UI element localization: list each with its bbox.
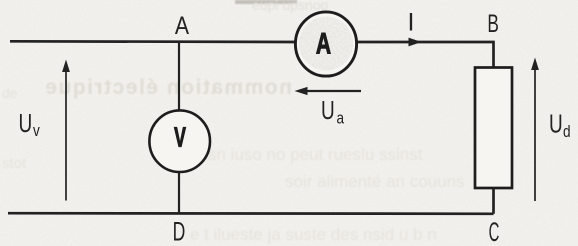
wire voltmeter bottom to node D: [178, 172, 180, 215]
svg-text:C: C: [489, 216, 500, 246]
svg-text:U: U: [321, 95, 335, 125]
svg-text:U: U: [19, 108, 33, 138]
svg-text:d: d: [563, 123, 571, 142]
label Ud: [549, 109, 571, 142]
svg-text:A: A: [175, 11, 190, 39]
svg-text:eupi upsnoo: eupi upsnoo: [252, 0, 329, 13]
voltage arrow Uv: [62, 60, 70, 201]
wire node A junction down to voltmeter: [178, 42, 180, 111]
ammeter A: [295, 12, 356, 76]
faint bleed-through ghost text (decorative): [2, 0, 465, 244]
label Uv: [19, 108, 41, 140]
wire top-left segment (left rail to ammeter): [10, 40, 295, 43]
wire ammeter to node B with corner down to resistor: [358, 42, 494, 67]
label Ua: [321, 95, 344, 128]
svg-text:de: de: [2, 85, 18, 101]
svg-text:soir alimenté an couuns: soir alimenté an couuns: [285, 172, 465, 191]
svg-text:a: a: [337, 109, 345, 128]
resistor (shunt): [475, 68, 512, 189]
svg-text:U: U: [549, 109, 563, 139]
svg-text:v: v: [33, 122, 40, 141]
svg-text:D: D: [173, 215, 186, 246]
svg-text:V: V: [174, 121, 186, 152]
svg-text:B: B: [487, 10, 499, 38]
voltmeter V: [149, 110, 210, 172]
svg-text:I: I: [408, 9, 415, 37]
svg-text:tiusn iuso no peut rueslu ssin: tiusn iuso no peut rueslu ssinst: [190, 145, 423, 164]
wire bottom rail D-C: [8, 212, 494, 215]
svg-text:stot: stot: [2, 155, 27, 172]
wire resistor bottom to node C: [492, 189, 495, 214]
svg-text:nommation électrique: nommation électrique: [44, 76, 292, 99]
voltage arrow Ud: [531, 58, 539, 202]
svg-text:e t ilueste ja suste des nsid: e t ilueste ja suste des nsid u b n: [190, 225, 437, 244]
current arrow I on top wire: [408, 9, 422, 47]
voltage arrow Ua: [295, 87, 362, 95]
svg-text:A: A: [316, 28, 331, 60]
